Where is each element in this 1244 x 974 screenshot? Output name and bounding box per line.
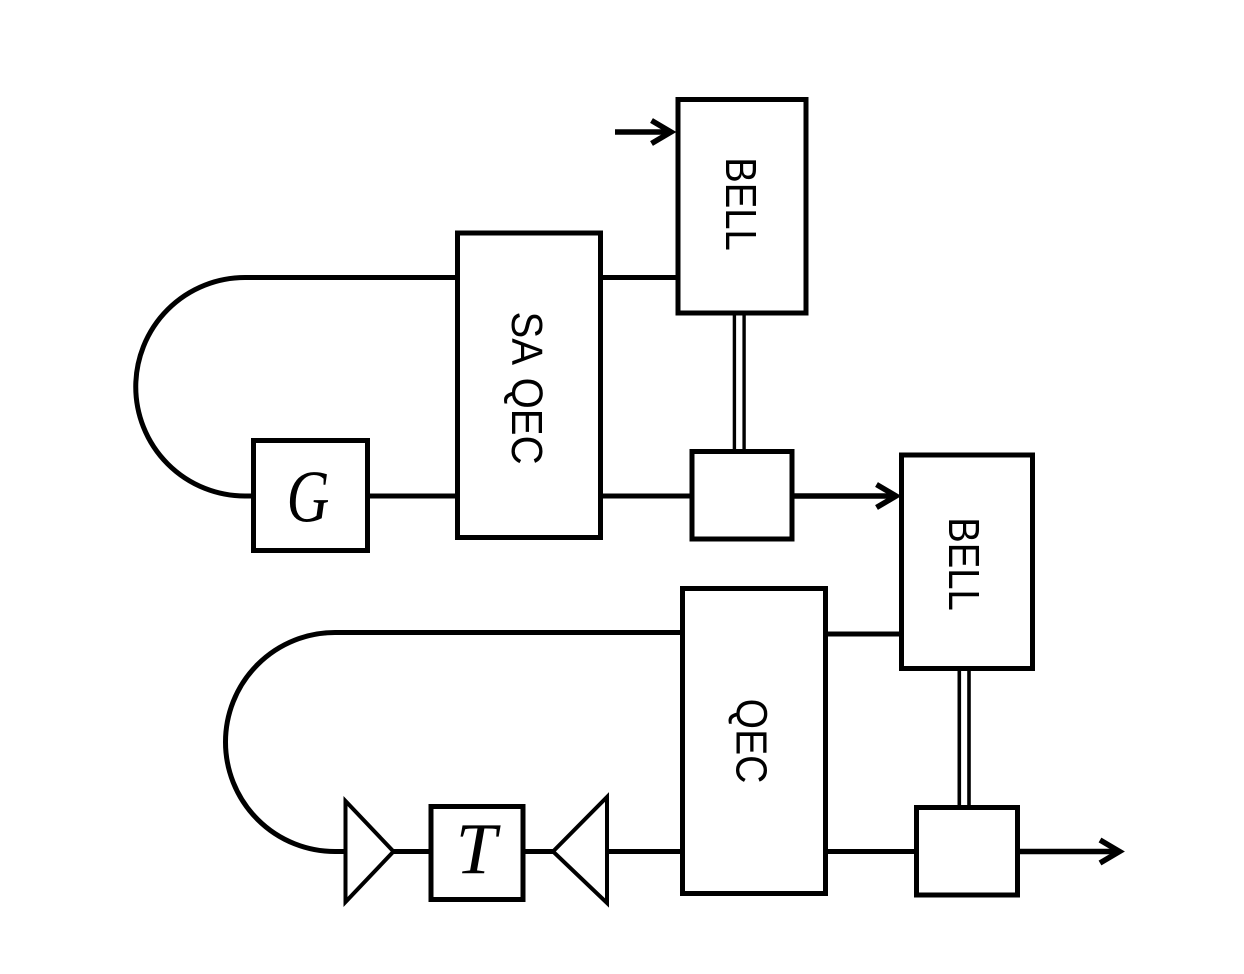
svg-text:G: G xyxy=(287,456,330,538)
box QEC xyxy=(683,589,826,894)
wire QEC to BELL U2 xyxy=(826,632,901,637)
wire G to SA QEC xyxy=(369,494,458,499)
classical double wire BELL U1 to M1 xyxy=(734,312,744,452)
classical double wire BELL U2 to M2 xyxy=(959,668,969,808)
svg-text:SA QEC: SA QEC xyxy=(502,311,551,464)
wire T to triangle left-pointing xyxy=(524,849,554,854)
box BELL U1 xyxy=(678,100,806,314)
svg-text:BELL: BELL xyxy=(716,157,765,250)
wire arrow output from M2 xyxy=(1018,840,1120,863)
box SA QEC xyxy=(458,233,601,538)
svg-text:QEC: QEC xyxy=(727,699,777,784)
wire SA QEC to measurement box M1 xyxy=(601,494,693,499)
svg-text:T: T xyxy=(456,809,501,890)
wire input arrow into BELL U1 xyxy=(615,121,671,144)
box measurement M1 xyxy=(692,452,792,540)
wire top feedback loop xyxy=(136,278,457,497)
box T xyxy=(431,807,523,900)
svg-text:BELL: BELL xyxy=(939,517,988,610)
wire QEC to measurement box M2 xyxy=(826,849,917,854)
triangle amplifier right-pointing xyxy=(346,801,394,902)
box G xyxy=(254,441,368,551)
wire arrow M1 to BELL U2 xyxy=(793,485,896,508)
wire SA QEC to BELL U1 xyxy=(601,275,677,280)
box measurement M2 xyxy=(917,808,1018,896)
triangle amplifier left-pointing xyxy=(553,797,607,903)
wire bottom feedback loop xyxy=(225,633,681,852)
box BELL U2 xyxy=(902,455,1033,669)
wire triangle to QEC xyxy=(606,849,682,854)
wire triangle to T xyxy=(393,849,430,854)
